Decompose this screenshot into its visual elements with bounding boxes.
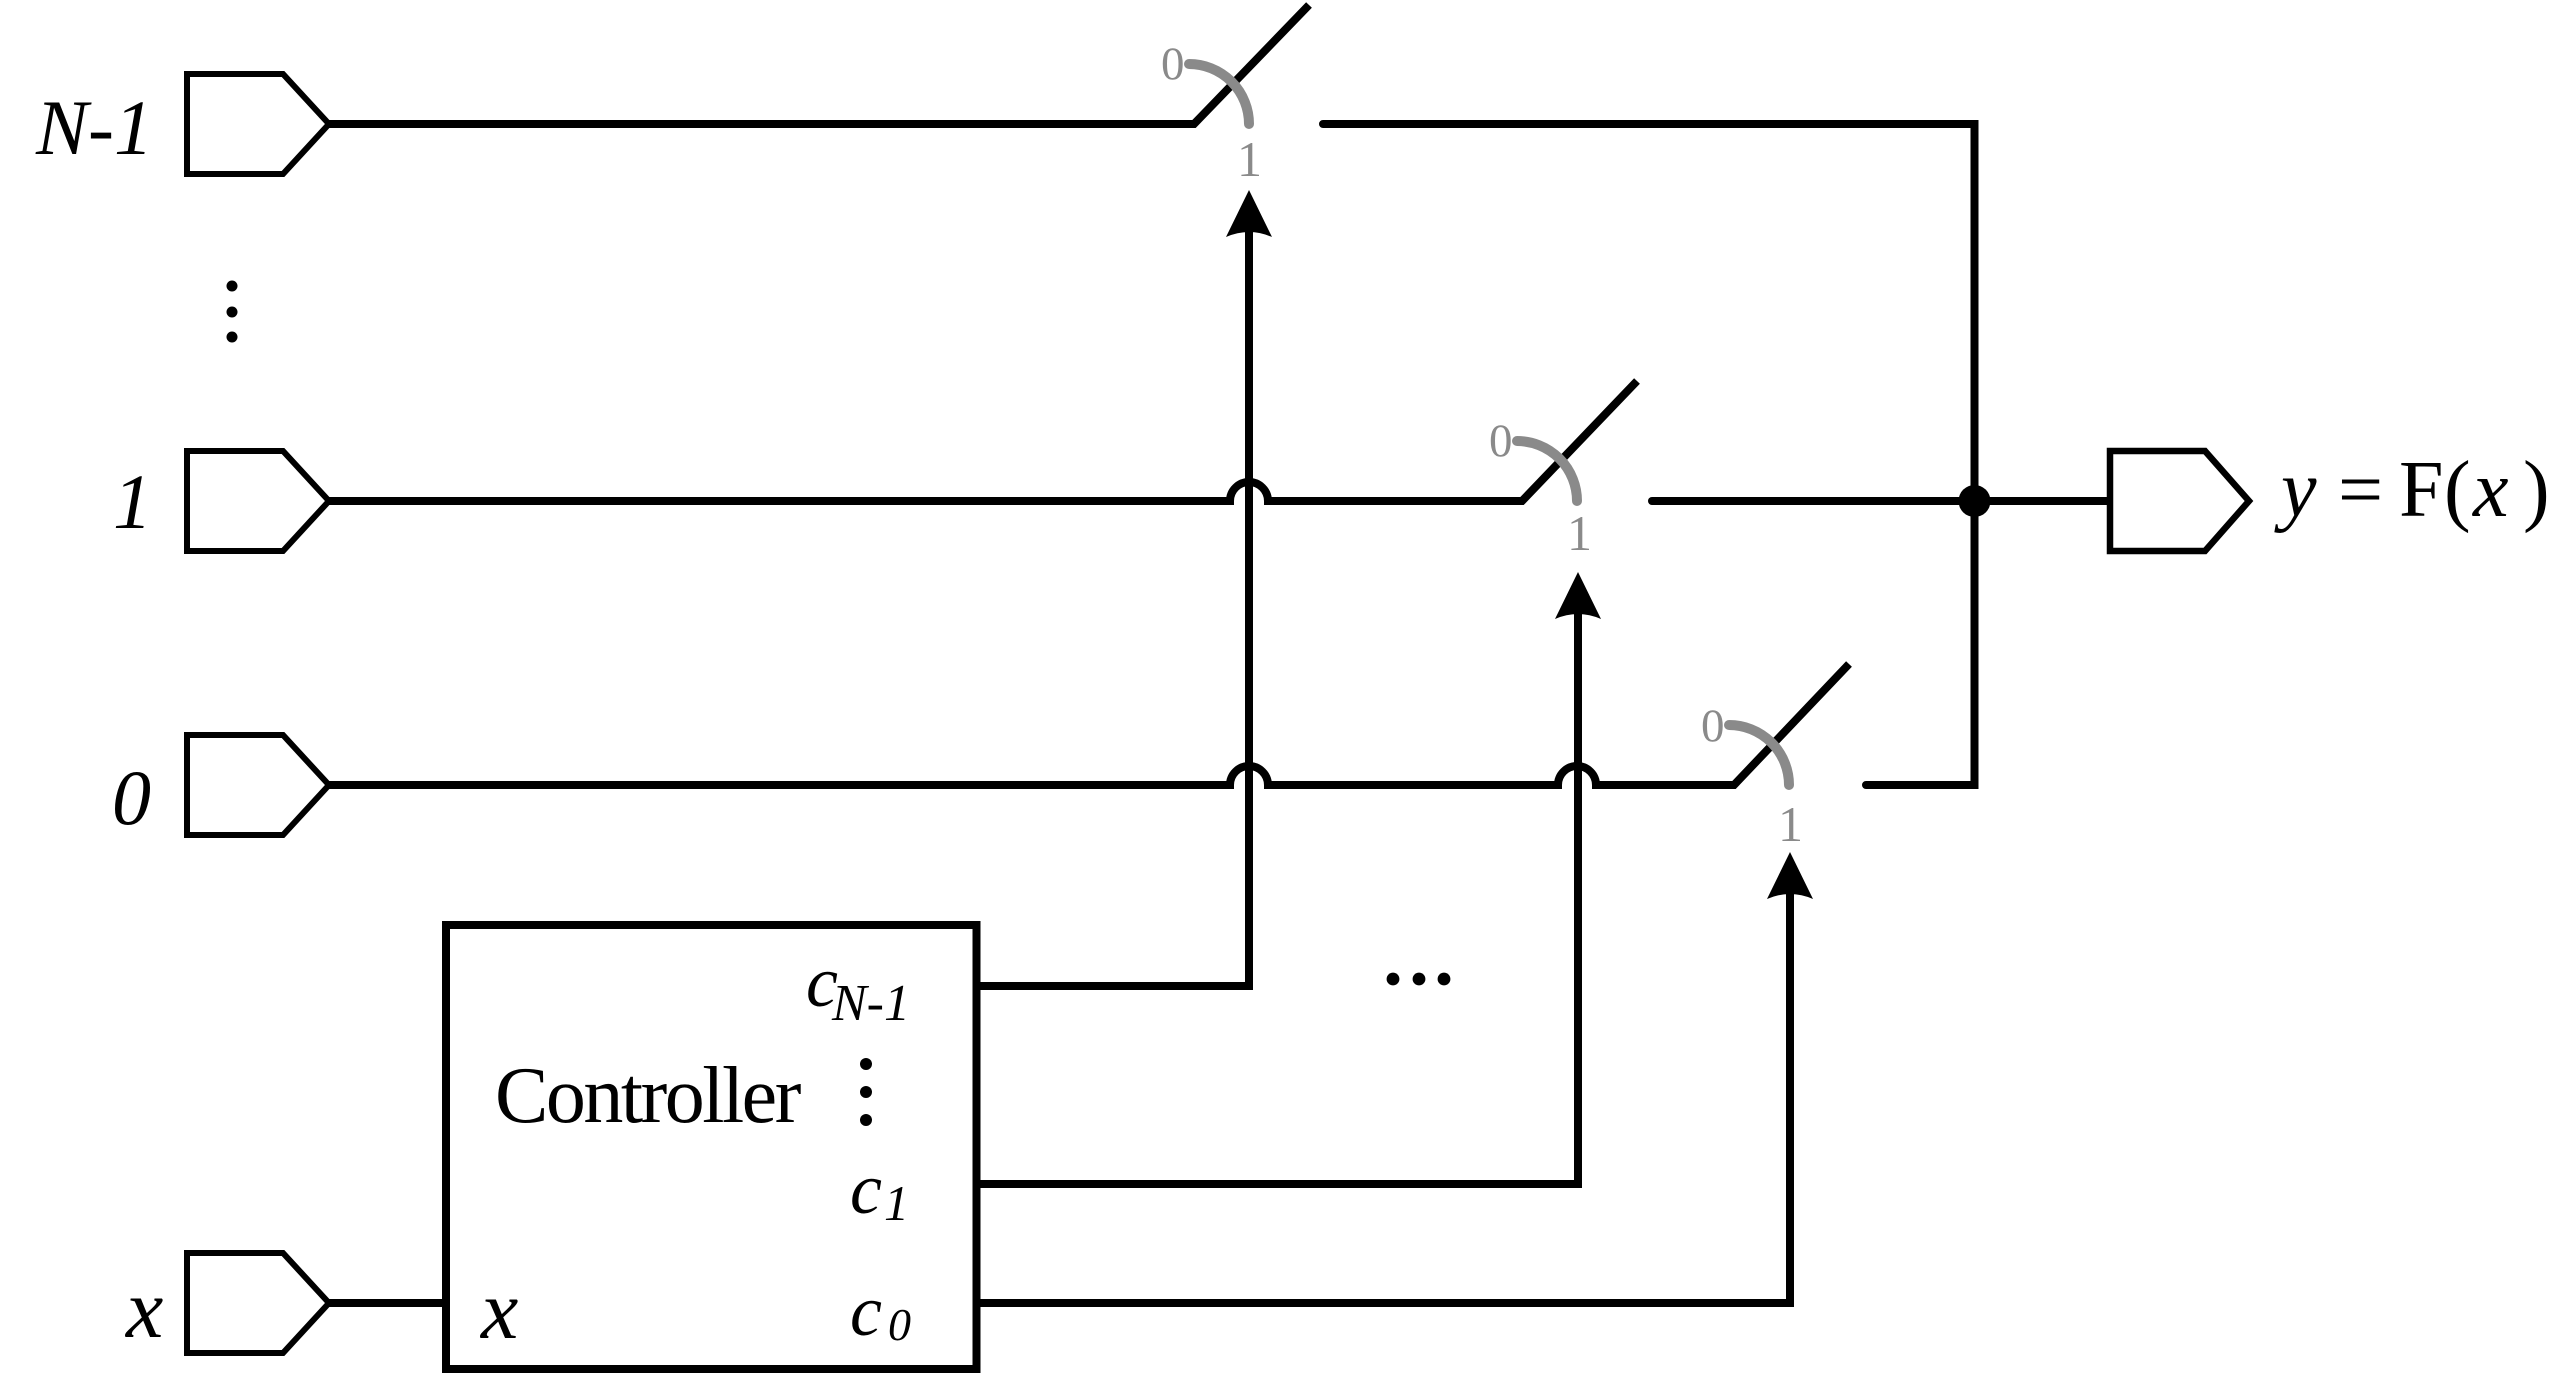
svg-text:y: y <box>2274 446 2317 534</box>
svg-text:1: 1 <box>1567 505 1592 561</box>
wire from S1 to corner and down to junction <box>1323 124 1975 501</box>
svg-text:1: 1 <box>113 458 152 545</box>
port 1 <box>187 451 329 551</box>
switch S1 arc <box>1189 64 1249 124</box>
svg-text:0: 0 <box>1701 700 1725 752</box>
svg-text:): ) <box>2523 446 2550 534</box>
svg-text:1: 1 <box>884 1175 909 1231</box>
svg-text:c: c <box>850 1271 882 1351</box>
svg-text:=: = <box>2338 446 2383 534</box>
switch S3 arc <box>1729 725 1789 785</box>
control wire c_1 from controller to switch S2 <box>976 611 1578 1184</box>
svg-text:x: x <box>124 1263 163 1356</box>
svg-text:0: 0 <box>1489 415 1513 467</box>
svg-text:c: c <box>850 1149 882 1229</box>
vertical dots between ports <box>227 281 238 292</box>
svg-text:x: x <box>479 1264 518 1357</box>
x input wire to controller <box>329 1299 446 1307</box>
wire N-1 with switch S1 arm <box>329 5 1309 124</box>
port N-1 <box>187 74 329 174</box>
horizontal ellipsis dots <box>1387 973 1400 986</box>
wire from S3 to corner and up to junction <box>1866 501 1975 785</box>
junction node <box>1959 485 1991 517</box>
port 0 <box>187 735 329 835</box>
svg-text:0: 0 <box>1161 38 1185 90</box>
port x <box>187 1253 329 1353</box>
svg-text:Controller: Controller <box>495 1052 801 1140</box>
controller box <box>446 925 977 1369</box>
svg-text:1: 1 <box>1237 131 1262 187</box>
control wire c_0 from controller to switch S3 <box>976 891 1790 1303</box>
controller vertical dots <box>860 1058 872 1070</box>
svg-text:0: 0 <box>112 754 151 841</box>
wire 1 with hop and switch S2 arm <box>329 381 1637 501</box>
svg-text:F: F <box>2399 446 2444 534</box>
wire from S2 to junction <box>1652 497 1975 505</box>
switch S2 arc <box>1517 441 1577 501</box>
svg-text:(: ( <box>2444 446 2471 534</box>
svg-text:N-1: N-1 <box>35 84 153 171</box>
svg-text:N-1: N-1 <box>831 975 910 1032</box>
svg-text:0: 0 <box>888 1299 911 1350</box>
svg-text:1: 1 <box>1778 796 1803 852</box>
arrowhead A3 <box>1767 852 1813 899</box>
wire 0 with two hops and switch S3 arm <box>329 664 1849 785</box>
arrowhead A1 <box>1226 190 1272 237</box>
arrowhead A2 <box>1555 572 1601 619</box>
output wire <box>1975 497 2111 505</box>
svg-text:x: x <box>2472 446 2509 534</box>
control wire c_N-1 from controller to switch S1 <box>976 229 1249 986</box>
output port <box>2110 451 2249 551</box>
